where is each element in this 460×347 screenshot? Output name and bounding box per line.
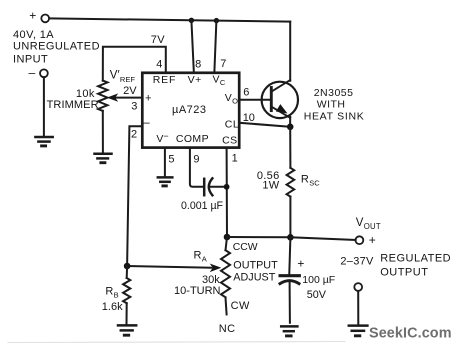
wire -input to ground bbox=[43, 77, 45, 135]
wire trimmer to ground bbox=[102, 111, 104, 153]
capacitor C1 0.001uF bbox=[204, 178, 226, 195]
wire Rsc to output node bbox=[289, 197, 291, 238]
label 2N3055 bbox=[304, 87, 365, 123]
resistor RB 1.6k bbox=[123, 278, 130, 303]
ground input bbox=[35, 137, 52, 146]
svg-text:9: 9 bbox=[193, 154, 199, 166]
wire pin 9 comp bbox=[190, 149, 204, 187]
svg-text:V′REF: V′REF bbox=[110, 70, 136, 84]
wire output junction to C2 bbox=[289, 237, 290, 273]
svg-text:+: + bbox=[145, 92, 151, 104]
svg-text:10: 10 bbox=[243, 112, 255, 124]
svg-text:5: 5 bbox=[168, 154, 174, 166]
wire pot bottom NC bbox=[226, 298, 227, 315]
scan artifact line (decorative) bbox=[8, 342, 345, 343]
wire output minus to ground bbox=[357, 291, 359, 324]
svg-text:100 µF: 100 µF bbox=[302, 274, 335, 286]
svg-text:CW: CW bbox=[231, 300, 250, 312]
svg-text:TRIMMER: TRIMMER bbox=[47, 99, 99, 111]
svg-text:VC: VC bbox=[213, 74, 226, 88]
terminal Vout bbox=[356, 236, 364, 244]
svg-text:2V: 2V bbox=[123, 85, 137, 97]
wire pin 6 Vo to base bbox=[241, 99, 272, 101]
wire bus to pin 8 bbox=[191, 20, 193, 71]
svg-text:RB: RB bbox=[105, 286, 118, 300]
wire RB junction to resistor bbox=[126, 266, 128, 278]
node dot output junction bbox=[287, 234, 294, 241]
svg-text:VOUT: VOUT bbox=[356, 217, 381, 231]
svg-text:2: 2 bbox=[131, 128, 137, 140]
svg-text:SeekIC.com: SeekIC.com bbox=[369, 326, 452, 342]
node dot bus-pin7 bbox=[214, 18, 219, 23]
svg-text:–: – bbox=[143, 115, 150, 129]
label input text bbox=[13, 29, 100, 65]
svg-text:VO: VO bbox=[225, 92, 238, 106]
svg-text:10-TURN: 10-TURN bbox=[174, 285, 221, 297]
svg-text:8: 8 bbox=[195, 58, 201, 70]
svg-text:WITH: WITH bbox=[317, 98, 346, 110]
svg-text:2N3055: 2N3055 bbox=[314, 87, 354, 99]
trimmer R1 10k bbox=[98, 81, 107, 111]
svg-text:CS: CS bbox=[222, 134, 238, 146]
wire output junction to Vout terminal bbox=[290, 237, 355, 240]
node dot emitter-CL junction bbox=[287, 124, 294, 131]
svg-text:INPUT: INPUT bbox=[13, 53, 48, 65]
svg-text:HEAT SINK: HEAT SINK bbox=[304, 111, 365, 123]
wire emitter to Rsc bbox=[289, 127, 291, 168]
wire 7V node trimmer-to-REF bbox=[103, 47, 166, 81]
svg-text:40V, 1A: 40V, 1A bbox=[13, 29, 54, 41]
svg-text:4: 4 bbox=[156, 58, 162, 70]
label REGULATED OUTPUT bbox=[380, 252, 451, 278]
svg-text:UNREGULATED: UNREGULATED bbox=[13, 40, 100, 52]
label 0.56 1W bbox=[257, 170, 280, 192]
svg-text:OUTPUT: OUTPUT bbox=[233, 260, 278, 272]
wire pin 2 inverting input bbox=[127, 126, 141, 266]
node dot RB junction bbox=[124, 263, 131, 270]
wire CS junction to output junction bbox=[227, 236, 290, 238]
wire collector drop bbox=[289, 22, 291, 81]
potentiometer RA 30k bbox=[221, 250, 230, 297]
svg-text:OUTPUT: OUTPUT bbox=[380, 266, 428, 278]
svg-text:RA: RA bbox=[194, 249, 207, 263]
svg-text:CL: CL bbox=[225, 119, 239, 131]
wire RB to ground bbox=[126, 303, 128, 324]
svg-text:REGULATED: REGULATED bbox=[380, 252, 451, 264]
wire pin 5 bbox=[164, 149, 166, 176]
svg-text:50V: 50V bbox=[307, 289, 327, 301]
svg-text:V+: V+ bbox=[188, 74, 202, 86]
svg-text:RSC: RSC bbox=[301, 174, 320, 188]
svg-text:1.6k: 1.6k bbox=[102, 301, 123, 313]
svg-text:0.001 µF: 0.001 µF bbox=[181, 200, 224, 212]
ground pin 5 bbox=[158, 177, 173, 186]
svg-text:1W: 1W bbox=[262, 179, 279, 191]
svg-text:6: 6 bbox=[243, 86, 249, 98]
svg-text:ADJUST: ADJUST bbox=[233, 271, 275, 283]
svg-text:+: + bbox=[297, 257, 304, 271]
op-amp regulator U1 uA723 box bbox=[142, 73, 239, 148]
wire bus to pin 7 bbox=[214, 21, 216, 72]
svg-text:+: + bbox=[29, 8, 36, 22]
node dot cap-CS junction bbox=[224, 184, 230, 190]
node dot bus-pin8 bbox=[189, 18, 194, 23]
svg-text:+: + bbox=[369, 233, 376, 247]
ground RB bbox=[118, 325, 136, 335]
svg-text:µA723: µA723 bbox=[172, 104, 207, 116]
capacitor C2 100uF bbox=[280, 276, 299, 323]
ground trimmer bbox=[95, 154, 112, 163]
wire pin 1 CS down bbox=[226, 149, 228, 238]
wire pin 10 CL bbox=[241, 123, 290, 127]
svg-text:NC: NC bbox=[219, 323, 236, 335]
transistor Q1 2N3055 bbox=[262, 80, 298, 127]
terminal + input bbox=[29, 8, 49, 22]
svg-text:7V: 7V bbox=[151, 34, 166, 46]
svg-text:CCW: CCW bbox=[233, 242, 258, 253]
svg-text:7: 7 bbox=[220, 58, 226, 70]
svg-text:2–37V: 2–37V bbox=[340, 255, 374, 267]
svg-text:–: – bbox=[28, 65, 35, 79]
wire top V+ bus bbox=[49, 18, 290, 21]
svg-text:V−COMP: V−COMP bbox=[156, 131, 209, 145]
wiper arrow RA bbox=[127, 264, 221, 273]
terminal - input bbox=[28, 65, 47, 79]
svg-text:1: 1 bbox=[232, 153, 238, 165]
svg-text:REF: REF bbox=[153, 74, 176, 86]
svg-text:3: 3 bbox=[131, 101, 137, 113]
resistor Rsc 0.56 bbox=[287, 168, 295, 197]
wire pot top bbox=[226, 237, 228, 250]
label OUTPUT ADJUST bbox=[233, 260, 278, 284]
ground output bbox=[349, 326, 368, 336]
node dot CS line junction bbox=[224, 234, 231, 241]
terminal output minus bbox=[354, 283, 362, 291]
ground C2 bbox=[281, 326, 297, 336]
wiper arrow trimmer bbox=[107, 93, 141, 101]
